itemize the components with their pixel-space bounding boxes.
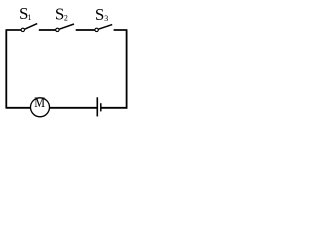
svg-text:M: M <box>34 95 45 111</box>
wire: bottom segment motor to battery <box>50 107 97 109</box>
wire: top right segment from S3 <box>114 29 128 31</box>
wire: top left segment to switch S1 <box>6 29 22 31</box>
svg-text:1: 1 <box>28 13 32 22</box>
motor M circle <box>31 98 50 117</box>
switch S1 blade <box>25 24 38 30</box>
switch S3 contact circle <box>95 28 98 31</box>
wire: segment S1 to S2 <box>39 29 56 31</box>
switch S3 blade <box>98 25 112 30</box>
battery short plate (negative) <box>100 103 102 111</box>
wire: right vertical side <box>126 30 128 109</box>
switch S2 blade <box>59 24 74 29</box>
wire: bottom right segment from battery <box>101 107 127 109</box>
switch S1 contact circle <box>21 28 24 31</box>
svg-text:S: S <box>95 5 104 24</box>
wire: left vertical side <box>5 30 7 108</box>
switch S2 contact circle <box>56 28 59 31</box>
wire: segment S2 to S3 <box>76 29 95 31</box>
battery long plate (positive) <box>96 97 98 116</box>
svg-text:3: 3 <box>104 14 108 23</box>
svg-text:2: 2 <box>64 14 68 23</box>
wire: bottom left segment to motor <box>6 107 31 109</box>
